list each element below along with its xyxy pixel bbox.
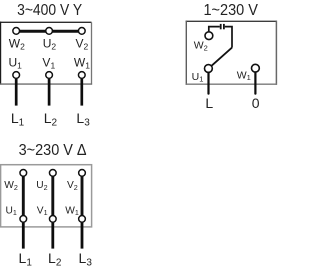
- svg-text:U2: U2: [36, 180, 47, 192]
- svg-text:V2: V2: [67, 180, 78, 192]
- terminal U2: [43, 28, 57, 52]
- svg-text:1~230 V: 1~230 V: [203, 2, 258, 19]
- svg-text:0: 0: [252, 95, 260, 111]
- terminal U1 (delta): [6, 205, 27, 222]
- wire star bridge W2-U2-V2: [16, 30, 82, 33]
- terminal V1: [42, 56, 55, 79]
- terminal W1 (1~): [237, 64, 260, 82]
- wire link U2-V1: [51, 175, 54, 217]
- svg-text:3~230 V Δ: 3~230 V Δ: [19, 142, 87, 159]
- wire lead L1 (delta): [22, 223, 25, 249]
- terminal W2 (delta): [4, 170, 26, 192]
- terminal V2 (delta): [67, 170, 85, 192]
- terminal U1 (1~): [192, 65, 213, 84]
- svg-text:L: L: [205, 95, 213, 111]
- terminal W1: [74, 56, 90, 79]
- wire lead L3 (delta): [81, 223, 84, 249]
- wire diagonal to U1: [212, 48, 233, 66]
- wire lead L2 (delta): [51, 223, 54, 249]
- wire link V2-W1: [81, 175, 84, 217]
- terminal U1: [8, 56, 22, 79]
- svg-text:U1: U1: [6, 205, 17, 217]
- wire lead L: [207, 73, 209, 94]
- terminal W1 (delta): [65, 205, 85, 222]
- wire lead 0: [254, 73, 256, 94]
- capacitor C: [221, 24, 224, 29]
- terminal box 1~230 V: [186, 21, 277, 85]
- terminal V1 (delta): [37, 205, 56, 222]
- svg-text:3~400 V Y: 3~400 V Y: [17, 2, 82, 19]
- wire capacitor to corner: [225, 27, 232, 48]
- terminal V2: [76, 28, 89, 52]
- wire lead L2: [48, 79, 51, 106]
- terminal box 3~400 V Y: [0, 22, 92, 85]
- terminal box 3~230 V Delta: [1, 165, 92, 227]
- terminal W2: [9, 28, 25, 52]
- svg-text:W2: W2: [4, 180, 18, 192]
- wire W2 to capacitor: [209, 27, 220, 32]
- wire lead L3: [80, 79, 83, 106]
- terminal W2 (1~): [194, 32, 213, 52]
- wire lead L1: [15, 79, 18, 106]
- terminal U2 (delta): [36, 170, 56, 192]
- wire link W2-U1: [22, 175, 25, 217]
- svg-text:V1: V1: [37, 205, 48, 217]
- svg-text:W1: W1: [65, 205, 79, 217]
